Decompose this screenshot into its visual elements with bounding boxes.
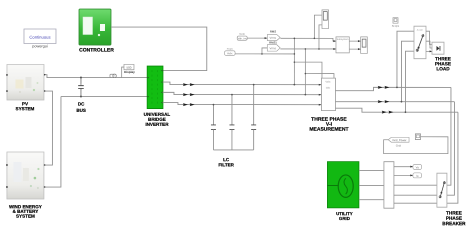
svg-text:LOAD: LOAD (436, 66, 450, 71)
wire: switch to load c (426, 50, 432, 52)
Mag block (415, 134, 420, 140)
svg-text:Vabc: Vabc (227, 51, 233, 55)
wire: LC filter common rail (213, 149, 253, 151)
wire: inverter phase B (163, 92, 322, 94)
LC filter leg 2 (229, 95, 234, 150)
svg-text:INVERTER: INVERTER (145, 122, 169, 127)
svg-text:Grid: Grid (396, 144, 402, 148)
svg-text:PHASE: PHASE (446, 216, 462, 221)
svg-text:Subsystem: Subsystem (337, 38, 349, 41)
wire: riser to load B (401, 41, 414, 102)
LC filter label (218, 157, 234, 167)
svg-text:Va: Va (416, 165, 420, 169)
display block Vdc (122, 64, 135, 77)
wire: measurement out phase a (335, 87, 451, 90)
svg-text:RMS: RMS (270, 30, 276, 34)
svg-text:Vabc: Vabc (325, 81, 331, 84)
wire: meas to breaker 3 (394, 202, 437, 204)
wire: grid phase 2 (359, 184, 384, 186)
three phase breaker block U-BRK (437, 173, 466, 226)
wire: phase b drop to breaker (447, 102, 455, 196)
tiny block scope top right (392, 18, 400, 28)
svg-text:GRID: GRID (339, 216, 350, 221)
wire: RMS1 output (280, 38, 336, 41)
wire: phase A sense tap (293, 38, 295, 84)
wire: phase B sense tap (304, 49, 306, 95)
LC filter leg 1 (211, 105, 216, 150)
arrows grid phase b (378, 100, 383, 103)
wire: PV+ to DC bus top rail (44, 75, 147, 78)
svg-text:powergui: powergui (32, 44, 48, 48)
port arrows into V-I measurement (319, 84, 322, 106)
svg-text:Continuous: Continuous (29, 35, 50, 40)
wire: riser to load C (405, 51, 414, 112)
svg-text:500: 500 (126, 66, 131, 70)
port ticks PV (6, 74, 46, 188)
wire: subsystem to scope2 a (349, 40, 360, 42)
From tag Vdc (237, 32, 247, 41)
svg-text:Scope: Scope (392, 24, 400, 28)
svg-text:Display: Display (124, 70, 135, 74)
arrows phase A (183, 83, 195, 106)
svg-text:LC: LC (223, 157, 230, 162)
svg-text:Grid_Power: Grid_Power (392, 138, 406, 142)
wire: PV- to wind+ (44, 91, 53, 165)
wire: Vabc to measurement top port 1 (294, 62, 322, 78)
wire: RMS2 output (280, 48, 336, 50)
wire: wind- riser (44, 97, 61, 188)
arrows grid phase a (378, 86, 394, 114)
grid measurement block (384, 162, 394, 209)
wire: subsystem to scope2 b (349, 48, 360, 50)
powergui block (24, 29, 56, 48)
svg-text:MEASUREMENT: MEASUREMENT (309, 127, 348, 133)
wire: controller gate signal to inverter (111, 27, 207, 71)
svg-text:CONTROLLER: CONTROLLER (79, 48, 114, 54)
From tag Vab (225, 47, 236, 56)
wire: scope tap 2 (319, 25, 322, 49)
wire: grid phase 3 (359, 199, 384, 201)
wire: meas to breaker 1 (394, 184, 437, 186)
scope2 block (361, 37, 368, 54)
wire: riser to load A (397, 31, 414, 87)
svg-text:RMS1: RMS1 (269, 41, 277, 45)
wire: DC bus bottom rail (61, 96, 147, 98)
svg-text:Vrms: Vrms (270, 36, 277, 40)
svg-text:A com: A com (417, 29, 423, 32)
svg-text:Vab_inv: Vab_inv (238, 36, 248, 40)
svg-text:BUS: BUS (76, 108, 86, 113)
svg-text:Goto: Goto (239, 32, 245, 36)
svg-text:SYSTEM: SYSTEM (16, 106, 35, 111)
wire: meas to breaker 2 (394, 194, 437, 196)
arrows grid phase c (382, 111, 387, 114)
wire: goto tag loop (384, 137, 448, 154)
wire: meas to tag Va (394, 166, 413, 168)
RMS block 1 (267, 30, 280, 41)
wire: branch to RMS2 input (262, 48, 267, 54)
svg-text:BREAKER: BREAKER (442, 221, 466, 226)
node dots LC taps (213, 104, 215, 106)
current measurement on DC bus (110, 74, 116, 77)
wire: switch to load b (426, 41, 432, 48)
LC filter leg 3 (251, 85, 256, 150)
wire: Iabc to measurement top port 2 (305, 74, 334, 79)
RMS block 2 (267, 41, 280, 52)
subsystem block scope feed (336, 37, 349, 53)
wind energy and battery system block (7, 152, 44, 219)
three phase V-I measurement block U-VI (309, 78, 348, 133)
wire: switch to load a (426, 31, 432, 44)
wire: meas to tag Ia (394, 174, 413, 176)
wire: grid phase 1 (359, 169, 384, 171)
utility grid block U-GRID (327, 162, 359, 221)
universal bridge inverter U-INV (144, 66, 171, 127)
wire: tag2 long feed (235, 53, 294, 55)
svg-text:THREE: THREE (446, 210, 462, 215)
wire: inverter phase C (163, 103, 322, 105)
tag Va (413, 164, 422, 169)
svg-text:Vrms: Vrms (270, 46, 277, 50)
scope block top (322, 10, 329, 29)
wire: inverter phase A (163, 82, 322, 85)
wire: phase a drop to breaker (447, 87, 451, 185)
arrows phase B (183, 93, 188, 96)
goto tag grid power (388, 137, 409, 147)
port ticks wind (44, 164, 46, 166)
capacitor DC bus (76, 77, 86, 113)
wire: measurement out phase c (335, 108, 458, 112)
wire: phase c drop to breaker (447, 112, 458, 203)
three phase load switch block (414, 26, 426, 59)
svg-text:DC: DC (78, 102, 85, 107)
controller U-CTRL (79, 9, 114, 54)
arrows phase C (183, 103, 188, 106)
wire: measurement out phase b (335, 101, 454, 103)
svg-text:From: From (227, 47, 233, 51)
three phase load block (432, 42, 451, 71)
wire: scope tap 1 (314, 15, 322, 38)
svg-text:SYSTEM: SYSTEM (16, 214, 35, 219)
tag Ia (413, 173, 422, 178)
svg-text:FILTER: FILTER (218, 162, 234, 167)
svg-text:Iabc: Iabc (326, 87, 331, 90)
PV system block (7, 65, 44, 112)
wire: tag1 to RMS1 (247, 37, 267, 39)
